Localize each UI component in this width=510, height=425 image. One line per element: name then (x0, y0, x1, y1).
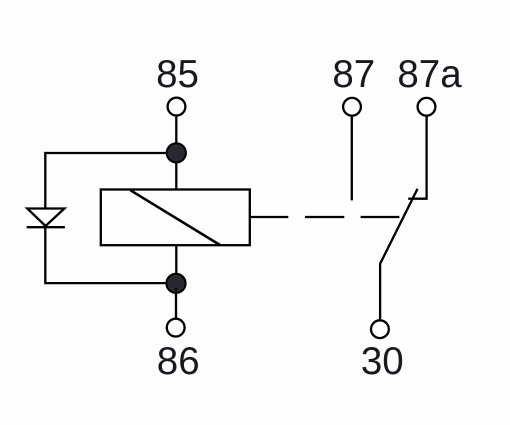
wire bottom horizontal to junction (45, 282, 176, 284)
terminal 30 (371, 320, 389, 338)
svg-text:87: 87 (332, 53, 375, 96)
terminal 85 (168, 98, 186, 116)
svg-text:85: 85 (156, 53, 199, 96)
svg-text:86: 86 (157, 340, 200, 383)
wire 85 to junction (175, 116, 177, 148)
wire left vertical upper (to diode) (44, 152, 46, 209)
wire junction to diode top (horizontal) (45, 152, 176, 154)
terminal 87 (343, 98, 361, 116)
actuator dash segment 2 (305, 216, 344, 218)
wire coil bottom to junction (175, 245, 177, 288)
junction node upper (167, 143, 186, 162)
relay coil K1 (101, 190, 250, 246)
terminal 87a (418, 98, 436, 116)
diode D1 (27, 209, 65, 228)
svg-text:30: 30 (361, 340, 404, 383)
wire 87 contact (351, 116, 353, 201)
actuator dash segment 3 (361, 216, 400, 218)
switch armature (380, 189, 417, 319)
svg-text:87a: 87a (397, 53, 462, 96)
actuator stub from coil (250, 216, 288, 218)
terminal 86 (167, 319, 185, 337)
wire 87a contact with seat (408, 116, 426, 199)
wire junction to terminal 86 (175, 288, 177, 319)
wire left vertical lower (diode to bottom) (44, 227, 46, 284)
wire junction to coil top (175, 153, 177, 190)
junction node lower (166, 274, 185, 293)
